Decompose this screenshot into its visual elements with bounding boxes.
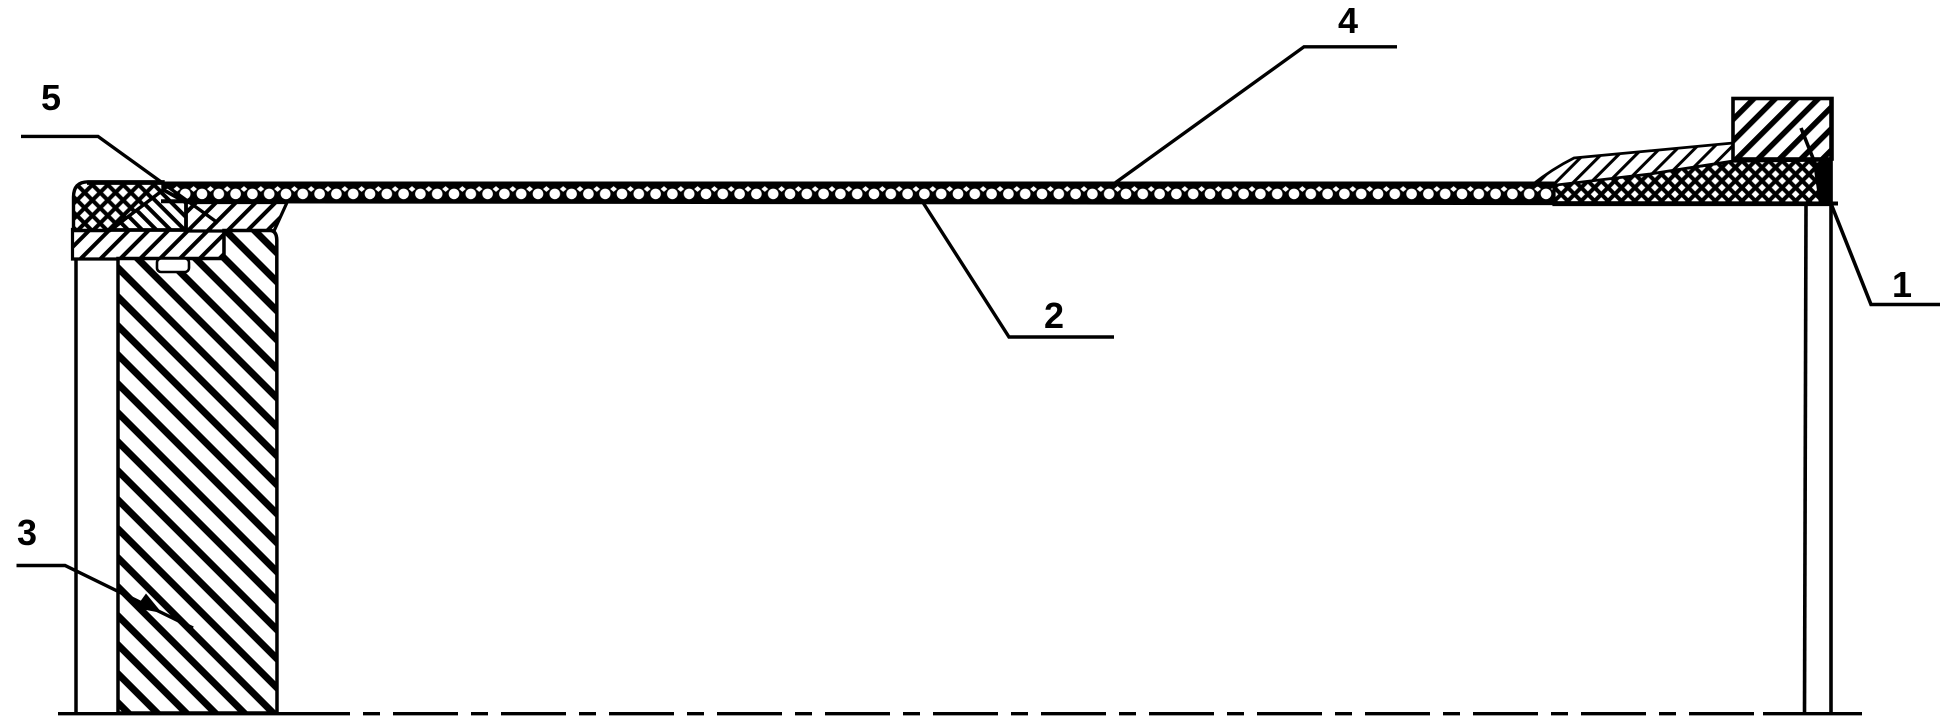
svg-text:1: 1 [1892,264,1912,305]
right container wall (outer) [1829,100,1833,714]
label 3 arrowhead [136,594,163,614]
strip top edge [87,181,1556,184]
svg-text:2: 2 [1044,295,1064,336]
left corner seal block (XX crosshatch, part 5 region) [74,182,164,231]
label 5 leader [21,136,218,223]
electrode column (part 3, \-hatch) with step [118,231,277,714]
right top hatched block (part 1) [1733,99,1832,160]
label 3 leader [17,566,194,629]
small wedge (\-hatch) between seal and gasket [111,189,186,230]
svg-text:4: 4 [1338,0,1358,41]
right crosshatch band (seal end, thick right portion of strip) [1554,160,1831,205]
svg-text:3: 3 [17,512,37,553]
left gasket upper piece (/-hatch) [186,203,287,232]
label 4 leader [1115,47,1397,183]
strip bottom edge [161,201,1838,203]
right thin hatched wedge above band [1532,143,1733,186]
white notch at top of column [157,259,189,273]
label 2 leader [922,201,1114,337]
left gasket lower band (/-hatch) [73,230,225,260]
cover strip body (membrane, part 2/4) [158,182,1560,203]
label 1 leader [1801,128,1940,305]
bottom centerline (dash-dot axis) [58,712,350,715]
right container wall (inner) [1805,205,1807,714]
left outer wall line [74,259,78,714]
svg-text:5: 5 [41,77,61,118]
black corner join at right end of band [1813,161,1831,204]
